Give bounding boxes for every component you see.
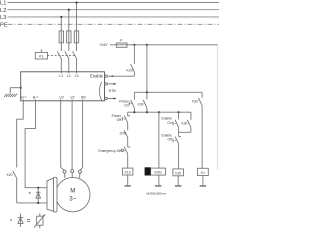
svg-text:PE: PE [0, 22, 8, 28]
svg-text:K20: K20 [192, 100, 198, 104]
svg-text:L1: L1 [0, 1, 6, 7]
svg-text:On: On [167, 121, 172, 125]
svg-text:L3: L3 [75, 74, 79, 78]
svg-text:Off: Off [117, 118, 121, 122]
svg-text:L3: L3 [0, 15, 6, 21]
svg-text:K30: K30 [182, 121, 188, 125]
svg-text:DTB: DTB [109, 89, 117, 93]
svg-text:L2: L2 [0, 8, 6, 14]
svg-text:K30: K30 [127, 69, 133, 73]
svg-text:Off: Off [167, 138, 171, 142]
svg-text:Enable: Enable [90, 73, 104, 78]
svg-text:DTB: DTB [120, 131, 127, 135]
svg-text:B+=: B+= [20, 95, 26, 99]
svg-text:W2: W2 [81, 95, 86, 99]
svg-text:K10: K10 [125, 171, 131, 175]
svg-text:K1: K1 [39, 54, 43, 58]
svg-text:K30: K30 [175, 172, 181, 176]
svg-text:Emergency-Off: Emergency-Off [98, 149, 121, 153]
svg-text:K20s: K20s [154, 171, 162, 175]
svg-text:U2: U2 [59, 95, 63, 99]
svg-text:3~: 3~ [69, 195, 76, 202]
svg-text:K1: K1 [201, 171, 205, 175]
svg-text:L1: L1 [59, 74, 63, 78]
svg-text:K30: K30 [138, 103, 144, 107]
svg-text:+24V: +24V [99, 43, 108, 47]
svg-text:t(K20f)≥500ms: t(K20f)≥500ms [146, 191, 167, 195]
svg-text:B-=: B-= [33, 95, 38, 99]
svg-text:L2: L2 [67, 74, 71, 78]
svg-text:V2: V2 [70, 95, 74, 99]
svg-text:On: On [124, 104, 129, 108]
svg-text:K20: K20 [7, 173, 13, 177]
svg-text:M: M [70, 187, 75, 194]
